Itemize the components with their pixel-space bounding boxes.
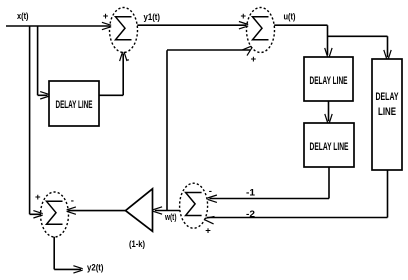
svg-text:+: + xyxy=(251,54,257,65)
svg-text:-2: -2 xyxy=(246,209,255,220)
svg-text:y2(t): y2(t) xyxy=(87,262,104,273)
svg-text:+: + xyxy=(35,192,41,203)
svg-text:w(t): w(t) xyxy=(164,212,176,223)
svg-text:+: + xyxy=(241,11,247,22)
svg-text:-1: -1 xyxy=(246,188,256,199)
svg-text:DELAY LINE: DELAY LINE xyxy=(310,75,348,87)
svg-text:DELAY LINE: DELAY LINE xyxy=(310,141,349,153)
svg-text:+: + xyxy=(205,226,211,237)
svg-text:x(t): x(t) xyxy=(17,11,29,22)
svg-text:y1(t): y1(t) xyxy=(144,12,161,23)
svg-text:u(t): u(t) xyxy=(284,11,296,22)
svg-text:-: - xyxy=(209,186,212,197)
svg-text:(1-k): (1-k) xyxy=(129,239,145,250)
svg-text:+: + xyxy=(103,11,109,22)
svg-text:-: - xyxy=(71,196,74,207)
svg-text:LINE: LINE xyxy=(378,106,396,118)
svg-text:DELAY: DELAY xyxy=(376,91,399,103)
svg-text:DELAY LINE: DELAY LINE xyxy=(56,99,93,111)
svg-text:-: - xyxy=(126,55,129,66)
